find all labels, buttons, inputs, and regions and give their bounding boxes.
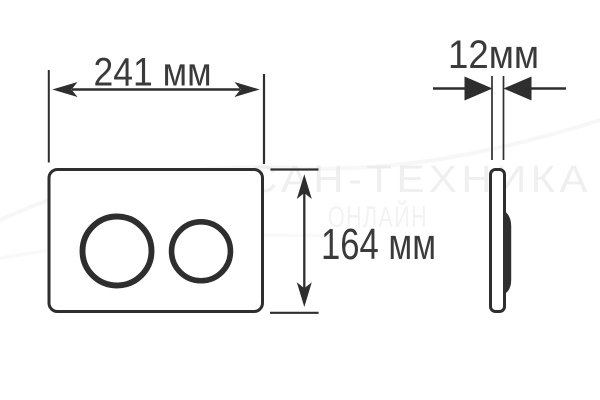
dim 241: dimension line <box>72 88 240 90</box>
small flush button <box>172 222 231 281</box>
svg-text:12мм: 12мм <box>448 33 539 77</box>
side view button bump <box>503 210 511 295</box>
dim 12: left arrowhead (points right) <box>465 77 493 101</box>
flush plate front view <box>49 170 263 312</box>
dim 12: right extension line <box>503 76 505 160</box>
dim 164: dimension line <box>303 178 305 301</box>
dim 12: left extension line <box>491 76 493 160</box>
dim 241: left extension line <box>48 70 50 163</box>
dim 12: right leader line <box>530 87 566 89</box>
dim 241: right extension line <box>263 74 265 164</box>
dim 241: left arrowhead <box>52 82 77 97</box>
side view profile plate <box>491 170 505 312</box>
svg-text:164 мм: 164 мм <box>321 220 436 269</box>
dim 164: top arrowhead <box>297 174 312 199</box>
watermark swoosh 2 <box>0 235 330 260</box>
large flush button <box>83 217 152 286</box>
watermark swoosh <box>0 120 600 225</box>
dim 164: top extension line <box>271 168 319 170</box>
dim 164: bottom extension line <box>270 312 319 314</box>
dim 164: bottom arrowhead <box>297 282 312 307</box>
dim 241: right arrowhead <box>235 82 260 97</box>
svg-text:241 мм: 241 мм <box>94 51 212 95</box>
dim 12: right arrowhead (points left) <box>504 77 532 101</box>
dim 12: left leader line <box>433 87 466 89</box>
